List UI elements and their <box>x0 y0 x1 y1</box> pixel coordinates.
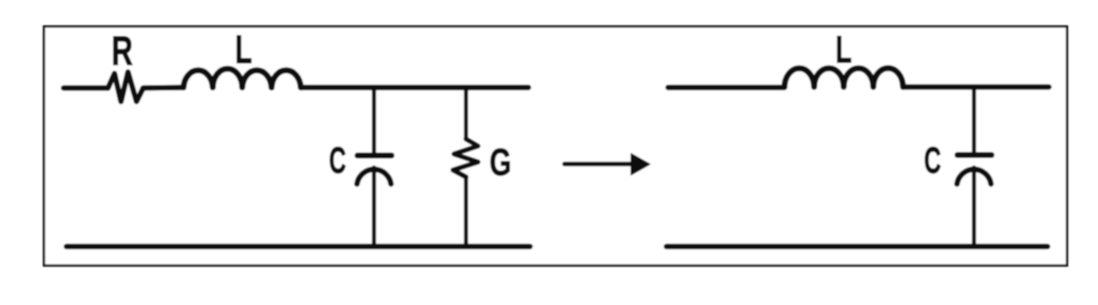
wire: shunt branch lead from top rail to capacitor C (left) <box>372 88 376 153</box>
wire: capacitor C (right) lower lead to bottom rail <box>972 168 976 247</box>
svg-text:G: G <box>490 142 512 184</box>
wire: right circuit bottom rail <box>667 244 1048 250</box>
border frame <box>44 27 1067 266</box>
resistor R <box>108 72 143 102</box>
svg-text:L: L <box>836 28 852 71</box>
svg-text:R: R <box>112 28 133 74</box>
wire: right circuit top rail right segment <box>903 84 1049 89</box>
wire: left circuit bottom rail <box>67 244 531 250</box>
capacitor C (left) top plate <box>358 153 392 159</box>
wire: right circuit top rail input segment <box>668 85 785 90</box>
wire: shunt branch lead from top rail to conductance G <box>464 88 468 140</box>
wire: left circuit top rail input segment <box>64 85 109 90</box>
wire: left circuit top rail right segment <box>301 85 529 90</box>
capacitor C (left) curved bottom plate <box>357 169 391 184</box>
wire: between R and L <box>143 85 182 91</box>
inductor L (right) <box>785 68 904 87</box>
svg-text:C: C <box>924 140 941 182</box>
wire: shunt branch lead from top rail to capacitor C (right) <box>972 87 976 152</box>
wire: capacitor C (left) lower lead to bottom rail <box>372 168 376 248</box>
arrow (transformation) shaft <box>565 162 634 167</box>
resistor G (shunt conductance zigzag) <box>453 139 478 177</box>
svg-text:C: C <box>329 140 346 182</box>
arrow (transformation) head <box>631 154 650 176</box>
capacitor C (right) curved bottom plate <box>957 169 991 184</box>
inductor L (left) <box>184 69 301 88</box>
svg-text:L: L <box>235 28 252 72</box>
capacitor C (right) top plate <box>958 152 992 158</box>
wire: conductance G lower lead to bottom rail <box>464 177 468 247</box>
